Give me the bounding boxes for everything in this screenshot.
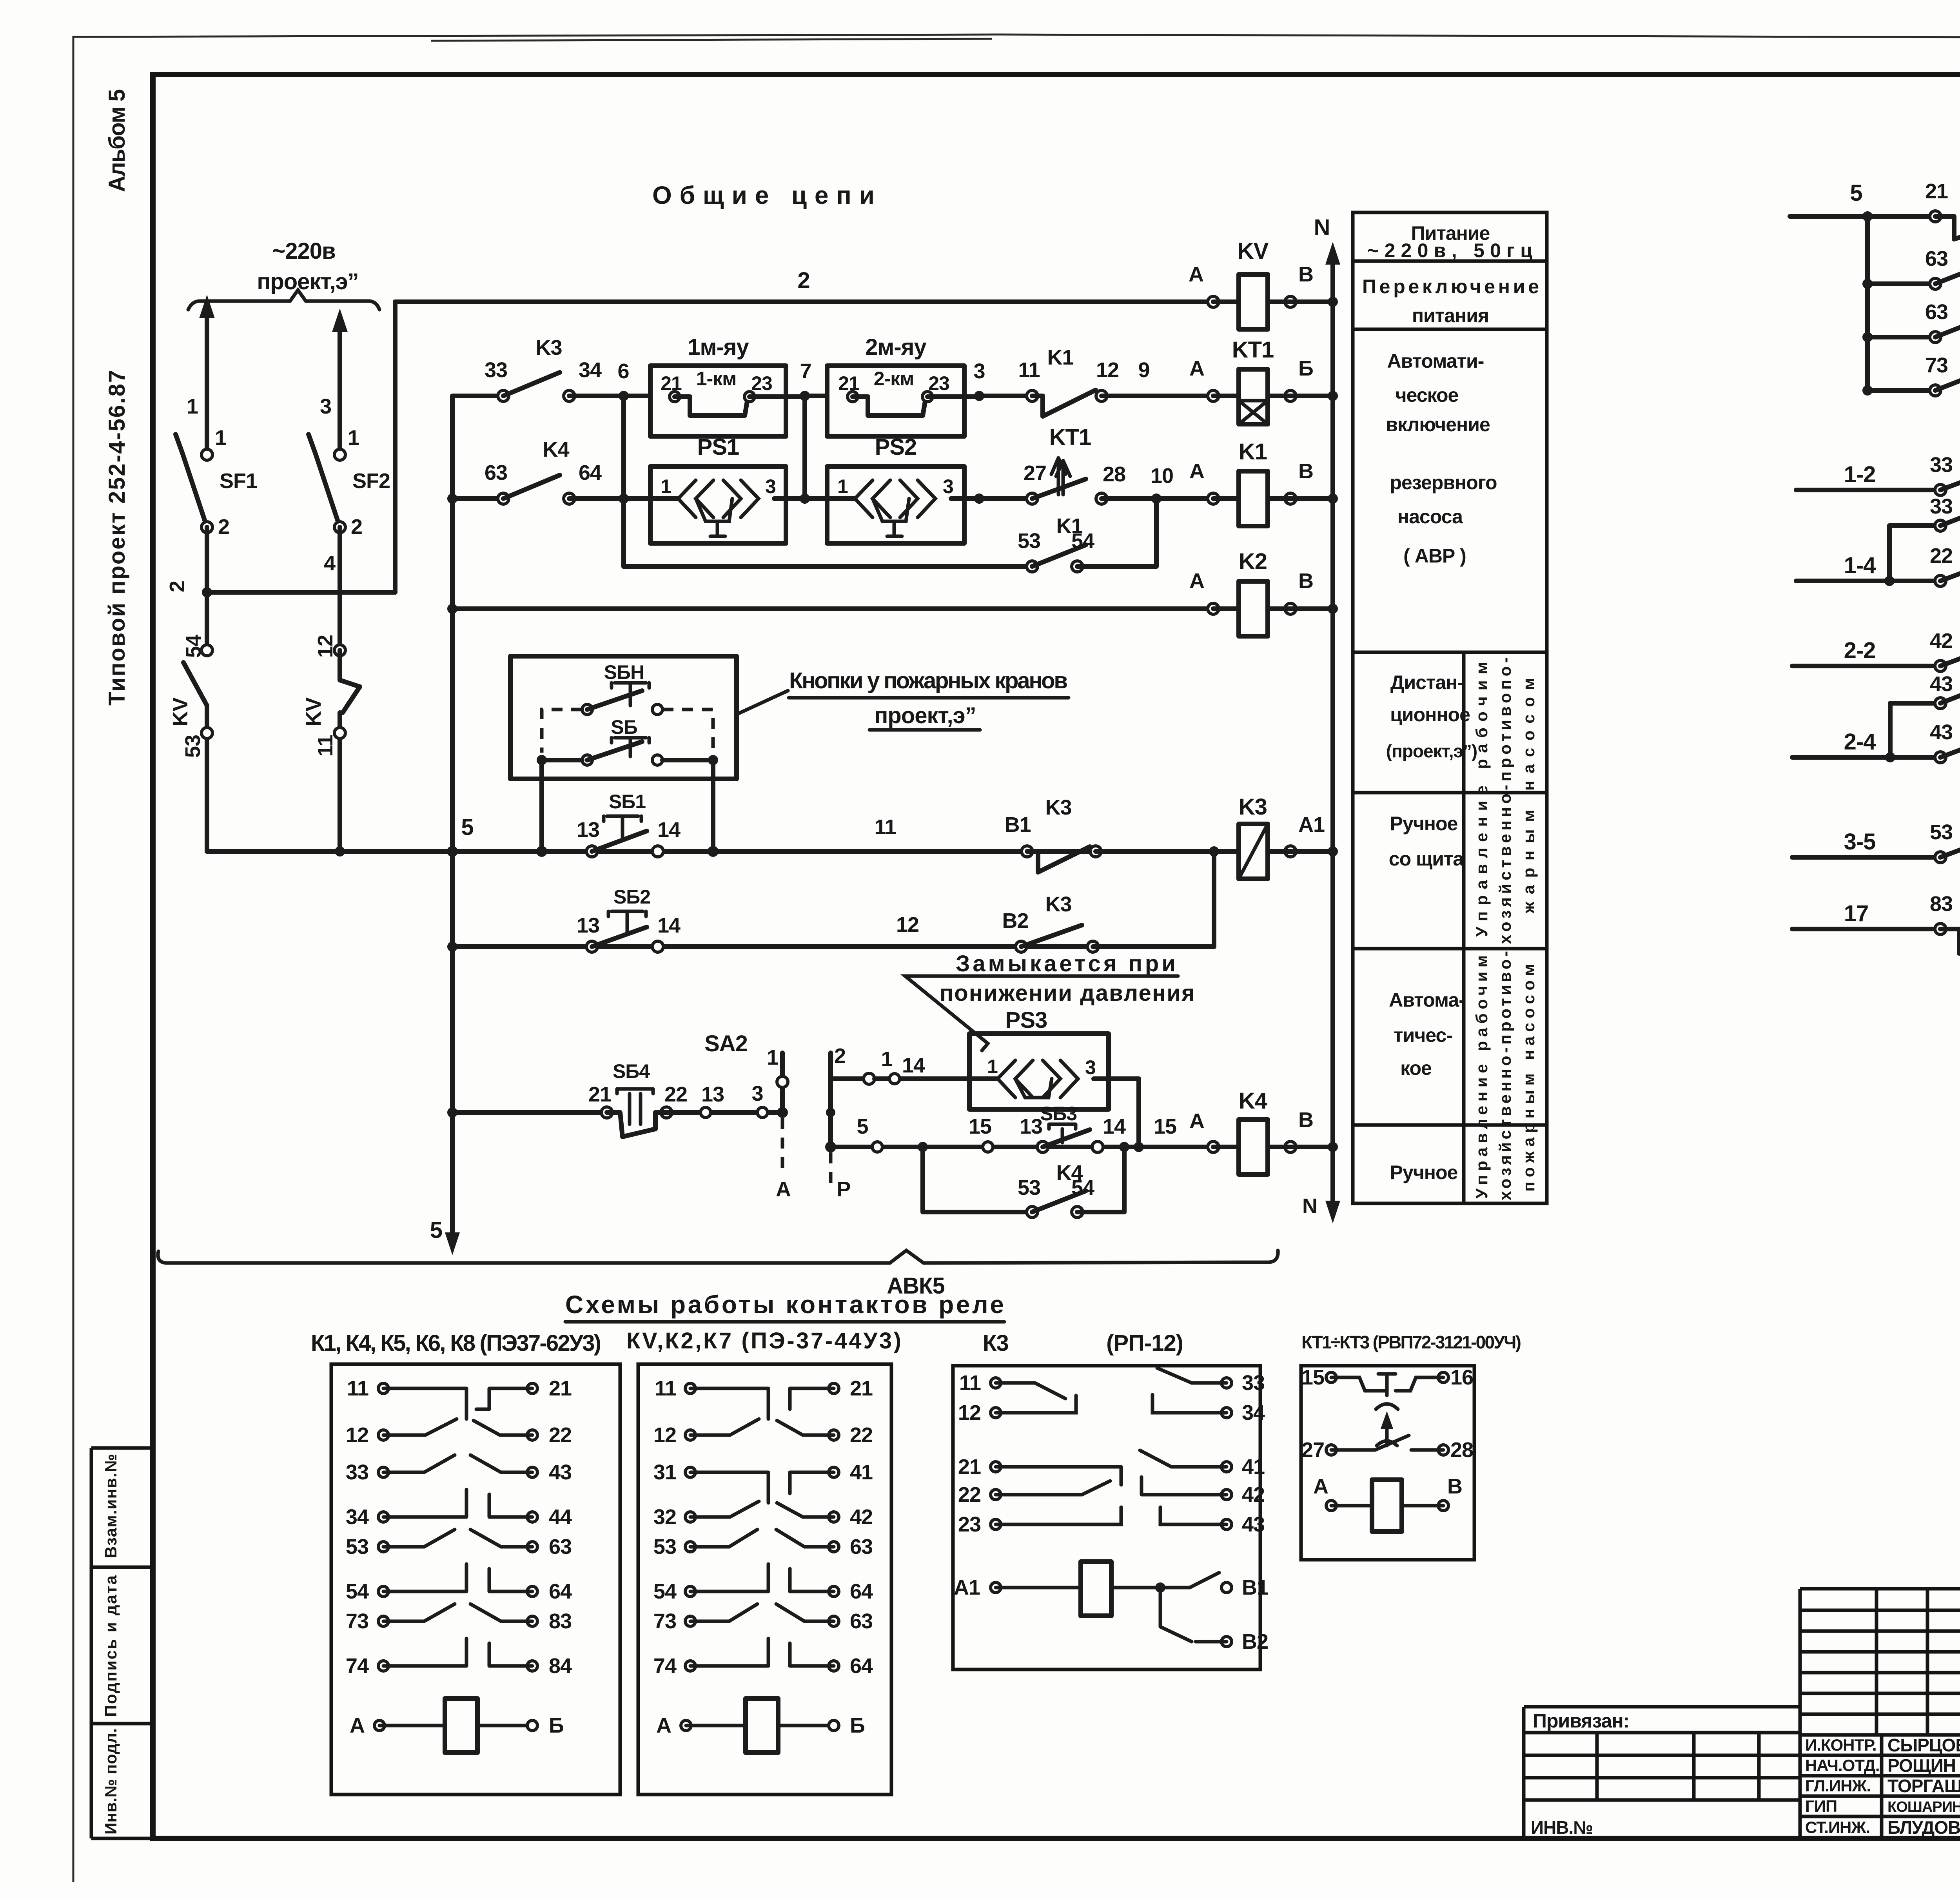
svg-text:КОШАРИНОВА: КОШАРИНОВА — [1887, 1799, 1960, 1815]
wire SF2 down — [338, 527, 342, 851]
svg-text:1: 1 — [348, 426, 359, 450]
svg-text:64: 64 — [850, 1654, 873, 1678]
svg-text:53: 53 — [1018, 529, 1040, 553]
svg-text:13: 13 — [1020, 1115, 1042, 1138]
svg-text:11: 11 — [347, 1377, 368, 1400]
svg-text:1: 1 — [187, 395, 198, 418]
svg-text:28: 28 — [1103, 463, 1125, 486]
svg-text:15: 15 — [1301, 1366, 1324, 1389]
contact KV on SF2 branch — [334, 645, 345, 656]
svg-text:11: 11 — [314, 735, 337, 757]
svg-text:Б: Б — [850, 1714, 865, 1737]
group3 contact K4 43-44 — [1890, 701, 1940, 706]
svg-text:насоса: насоса — [1397, 506, 1463, 528]
svg-text:1: 1 — [837, 475, 848, 497]
row SB2 — [448, 942, 457, 951]
box3 coil and output contacts — [996, 1586, 1160, 1590]
relay diagram box1 — [331, 1364, 620, 1795]
svg-text:7: 7 — [800, 359, 811, 383]
svg-text:КТ1÷КТ3 (РВП72-3121-00УЧ): КТ1÷КТ3 (РВП72-3121-00УЧ) — [1301, 1332, 1521, 1352]
svg-text:54: 54 — [1071, 1176, 1094, 1199]
pressure contact PS3 — [969, 1076, 1109, 1081]
svg-text:63: 63 — [549, 1535, 572, 1559]
svg-text:(РП-12): (РП-12) — [1106, 1330, 1183, 1356]
titleblock main frame — [1800, 1589, 1960, 1838]
svg-text:Альбом 5: Альбом 5 — [104, 89, 130, 192]
sheet outer edge left — [73, 36, 74, 1882]
svg-text:3-5: 3-5 — [1844, 829, 1876, 855]
svg-text:2-км: 2-км — [874, 368, 914, 390]
svg-text:73: 73 — [1925, 354, 1948, 377]
svg-text:15: 15 — [969, 1115, 991, 1138]
svg-text:Ручное: Ручное — [1390, 1161, 1458, 1183]
svg-text:А: А — [1313, 1475, 1328, 1498]
svg-text:53: 53 — [653, 1535, 676, 1559]
svg-text:6: 6 — [617, 359, 629, 383]
pressure contact PS2 — [827, 496, 964, 501]
svg-text:5: 5 — [430, 1218, 442, 1243]
svg-text:В: В — [1298, 263, 1313, 286]
svg-text:KV: KV — [169, 697, 192, 726]
svg-text:Переключение: Переключение — [1362, 276, 1539, 298]
svg-text:( АВР ): ( АВР ) — [1403, 545, 1466, 567]
svg-text:А: А — [350, 1714, 365, 1737]
svg-text:PS3: PS3 — [1005, 1007, 1047, 1033]
box3 contact 33-34 — [1152, 1368, 1227, 1413]
svg-text:К1, К4, К5, К6, К8 (ПЭ37-62У3): К1, К4, К5, К6, К8 (ПЭ37-62У3) — [311, 1330, 601, 1356]
bypass contact K1 53-54 — [624, 564, 1027, 569]
svg-text:53: 53 — [1018, 1176, 1040, 1199]
svg-text:11: 11 — [655, 1377, 676, 1400]
svg-text:включение: включение — [1386, 414, 1490, 435]
svg-text:KV: KV — [1238, 238, 1269, 264]
pressure contact PS1 — [650, 496, 786, 501]
svg-text:KV: KV — [302, 697, 325, 726]
svg-text:64: 64 — [850, 1580, 873, 1603]
svg-text:14: 14 — [902, 1054, 925, 1077]
svg-text:74: 74 — [346, 1654, 369, 1678]
svg-text:42: 42 — [850, 1505, 873, 1529]
svg-text:тичес-: тичес- — [1394, 1024, 1452, 1046]
sheet edge double line top — [431, 39, 992, 41]
svg-text:KT1: KT1 — [1049, 425, 1091, 450]
svg-text:1-2: 1-2 — [1844, 462, 1876, 487]
svg-text:15: 15 — [1154, 1115, 1176, 1138]
bus 5 — [207, 849, 1214, 854]
signature rows — [1800, 1735, 1960, 1838]
svg-text:В: В — [1447, 1475, 1462, 1498]
box1 contact pair 53-63/54-64 — [383, 1530, 532, 1547]
relay diagram box2 — [638, 1364, 891, 1795]
wire tie between feeders — [207, 590, 395, 595]
svg-text:1м-яу: 1м-яу — [688, 334, 749, 360]
svg-text:27: 27 — [1301, 1438, 1324, 1462]
wire 1-14 row — [875, 1076, 969, 1081]
wire between PS boxes — [786, 496, 827, 501]
svg-text:Ручное: Ручное — [1390, 813, 1458, 835]
svg-text:Р: Р — [837, 1178, 850, 1201]
svg-text:1-4: 1-4 — [1844, 553, 1876, 578]
dashed link left — [542, 709, 582, 753]
function table frame — [1353, 212, 1547, 1203]
box2 contact pair 53-63/54-64 — [690, 1530, 834, 1547]
svg-text:1: 1 — [661, 475, 671, 497]
svg-text:SБ: SБ — [611, 716, 637, 738]
wire PS3 to row K4 — [1109, 1079, 1139, 1147]
svg-text:54: 54 — [346, 1580, 369, 1603]
svg-text:34: 34 — [1242, 1401, 1265, 1424]
svg-text:84: 84 — [549, 1654, 572, 1678]
svg-text:К3: К3 — [983, 1330, 1009, 1356]
svg-text:14: 14 — [1103, 1115, 1126, 1138]
svg-text:17: 17 — [1844, 901, 1869, 926]
svg-text:SF1: SF1 — [220, 469, 257, 493]
svg-text:21: 21 — [588, 1083, 611, 1106]
svg-text:43: 43 — [1930, 672, 1953, 696]
svg-text:34: 34 — [579, 358, 602, 382]
wire to contact K1 — [979, 394, 1027, 398]
svg-text:N: N — [1302, 1194, 1317, 1218]
svg-text:3: 3 — [973, 359, 985, 383]
svg-text:А: А — [1189, 1109, 1204, 1133]
svg-text:22: 22 — [958, 1483, 981, 1506]
svg-text:3: 3 — [943, 475, 953, 497]
box3 contact 11-12 — [996, 1383, 1076, 1413]
svg-text:(проект,э”): (проект,э”) — [1386, 741, 1477, 761]
svg-text:SБ3: SБ3 — [1040, 1103, 1077, 1125]
svg-text:Привязан:: Привязан: — [1533, 1710, 1629, 1732]
svg-text:43: 43 — [1242, 1513, 1265, 1536]
svg-text:10: 10 — [1151, 464, 1173, 488]
svg-text:БЛУДОВА: БЛУДОВА — [1887, 1817, 1960, 1838]
rail 5 arrow — [450, 1112, 455, 1247]
breaker SF2 — [334, 449, 345, 460]
svg-text:А: А — [776, 1178, 791, 1201]
svg-text:кое: кое — [1400, 1057, 1432, 1079]
svg-text:хозяйственно-противо-: хозяйственно-противо- — [1496, 951, 1514, 1200]
svg-text:Взам.инв.№: Взам.инв.№ — [102, 1454, 120, 1558]
svg-text:В2: В2 — [1242, 1630, 1268, 1653]
svg-text:SБ4: SБ4 — [613, 1060, 650, 1082]
brace under 220в label — [188, 290, 379, 310]
contact K2 63-64 — [1863, 332, 1872, 342]
svg-text:Автома-: Автома- — [1389, 989, 1465, 1011]
rail for rows — [450, 396, 455, 1112]
svg-text:27: 27 — [1024, 461, 1046, 485]
svg-text:32: 32 — [653, 1505, 676, 1529]
svg-text:Кнопки у пожарных кранов: Кнопки у пожарных кранов — [789, 668, 1067, 693]
row 2 wire — [452, 394, 499, 398]
svg-text:43: 43 — [1930, 720, 1953, 744]
svg-text:2-4: 2-4 — [1844, 729, 1876, 755]
svg-text:2: 2 — [834, 1044, 846, 1068]
svg-text:Дистан-: Дистан- — [1390, 671, 1463, 693]
svg-text:K3: K3 — [1239, 794, 1267, 820]
svg-text:42: 42 — [1930, 629, 1953, 653]
svg-text:Управление рабочим: Управление рабочим — [1472, 956, 1491, 1199]
svg-text:54: 54 — [1071, 529, 1094, 553]
bus 2 — [395, 299, 1213, 304]
svg-text:9: 9 — [1138, 358, 1149, 382]
svg-text:K4: K4 — [1239, 1088, 1267, 1114]
svg-text:SБ2: SБ2 — [613, 886, 650, 908]
wire PS2 to KT1 contact — [964, 496, 1027, 501]
svg-text:63: 63 — [850, 1609, 873, 1633]
svg-text:12: 12 — [346, 1423, 368, 1447]
svg-text:2: 2 — [165, 581, 189, 592]
svg-text:12: 12 — [896, 913, 919, 936]
svg-text:НАЧ.ОТД.: НАЧ.ОТД. — [1805, 1756, 1880, 1775]
dashed link right — [662, 709, 713, 753]
svg-text:11: 11 — [1018, 358, 1040, 382]
svg-text:73: 73 — [346, 1609, 368, 1633]
svg-text:1: 1 — [215, 426, 226, 450]
group2 contact K4 33-34 — [1889, 523, 1940, 528]
svg-text:Типовой проект 252-4-56.87: Типовой проект 252-4-56.87 — [104, 370, 130, 706]
row K2 wire — [448, 604, 457, 613]
svg-text:ГИП: ГИП — [1805, 1797, 1837, 1815]
svg-text:Б: Б — [549, 1714, 564, 1737]
svg-text:63: 63 — [850, 1535, 873, 1559]
svg-text:64: 64 — [549, 1580, 572, 1603]
svg-text:ТОРГАШОВ: ТОРГАШОВ — [1887, 1776, 1960, 1796]
svg-text:33: 33 — [485, 358, 507, 382]
margin stamp table — [91, 1448, 153, 1838]
svg-text:21: 21 — [850, 1377, 873, 1400]
svg-text:41: 41 — [850, 1461, 873, 1484]
svg-text:3: 3 — [320, 395, 331, 418]
svg-text:СЫРЦОВА: СЫРЦОВА — [1887, 1735, 1960, 1755]
svg-text:5: 5 — [857, 1115, 868, 1138]
revision grid — [1800, 1589, 1960, 1838]
svg-text:K3: K3 — [535, 336, 562, 359]
bypass contact K4 53-54 — [923, 1147, 1027, 1212]
wire box to bus — [542, 760, 713, 851]
svg-text:PS2: PS2 — [875, 434, 917, 460]
svg-text:2-2: 2-2 — [1844, 638, 1876, 663]
svg-text:12: 12 — [1096, 358, 1119, 382]
svg-text:жарным насосом: жарным насосом — [1519, 678, 1538, 914]
svg-text:KT1: KT1 — [1232, 337, 1274, 363]
svg-text:А1: А1 — [954, 1576, 980, 1599]
node B — [1285, 296, 1296, 307]
svg-text:11: 11 — [959, 1371, 981, 1395]
svg-text:64: 64 — [579, 461, 602, 484]
row SB4 — [448, 1108, 457, 1117]
svg-text:SF2: SF2 — [352, 469, 390, 493]
wire 7 to box2 — [805, 394, 827, 398]
svg-text:N: N — [1314, 215, 1330, 240]
svg-text:63: 63 — [1925, 300, 1948, 324]
svg-text:83: 83 — [549, 1609, 572, 1633]
svg-text:пожарным насосом: пожарным насосом — [1519, 964, 1538, 1192]
svg-text:СТ.ИНЖ.: СТ.ИНЖ. — [1805, 1818, 1870, 1836]
wire rail from bus 2 — [393, 302, 397, 592]
box3 contact 21-22-23 — [996, 1467, 1121, 1524]
contact 1-КМ 21-23 — [670, 392, 680, 402]
привязан box — [1524, 1707, 1800, 1838]
svg-text:РОЩИН: РОЩИН — [1887, 1755, 1956, 1776]
svg-text:проект,э”: проект,э” — [874, 703, 976, 728]
svg-text:14: 14 — [657, 914, 681, 937]
svg-text:В1: В1 — [1242, 1576, 1268, 1599]
svg-text:А: А — [1189, 357, 1204, 380]
wire SF2 incoming arrow — [338, 318, 342, 450]
svg-text:со щита: со щита — [1389, 848, 1465, 870]
box2 contact pair 11-21/12-22 — [690, 1388, 834, 1419]
svg-text:А: А — [1189, 569, 1204, 593]
svg-text:53: 53 — [346, 1535, 368, 1559]
svg-text:34: 34 — [346, 1505, 369, 1529]
svg-text:21: 21 — [958, 1455, 981, 1479]
svg-text:3: 3 — [765, 475, 776, 497]
svg-text:16: 16 — [1450, 1366, 1473, 1389]
svg-text:53: 53 — [1930, 820, 1953, 844]
svg-text:А1: А1 — [1298, 813, 1325, 836]
svg-text:1-км: 1-км — [696, 368, 736, 390]
svg-text:В1: В1 — [1004, 813, 1031, 836]
svg-text:44: 44 — [549, 1505, 572, 1529]
svg-text:Управление рабочим: Управление рабочим — [1472, 662, 1491, 937]
wire KV to N — [1268, 299, 1333, 304]
svg-text:K3: K3 — [1045, 893, 1071, 916]
wire node6 to row3 — [621, 396, 626, 566]
svg-text:ческое: ческое — [1396, 384, 1459, 406]
contact 2-КМ 21-23 — [848, 392, 858, 402]
svg-text:Б: Б — [1298, 357, 1313, 380]
svg-text:В2: В2 — [1002, 909, 1028, 933]
wire SF1 incoming arrow — [205, 304, 209, 450]
row K4 wire — [831, 1145, 1213, 1149]
svg-text:SA2: SA2 — [704, 1031, 748, 1056]
relay diagram box3 — [953, 1366, 1260, 1669]
note leader — [905, 976, 1178, 1051]
svg-text:А: А — [656, 1714, 671, 1737]
contact KV on SF1 branch — [201, 645, 212, 656]
breaker SF1 — [201, 449, 212, 460]
svg-text:В: В — [1298, 459, 1313, 483]
svg-text:5: 5 — [1850, 180, 1862, 206]
svg-text:ИНВ.№: ИНВ.№ — [1531, 1817, 1593, 1838]
svg-text:А: А — [1189, 263, 1203, 286]
svg-text:73: 73 — [653, 1609, 676, 1633]
svg-text:12: 12 — [653, 1423, 676, 1447]
svg-text:Замыкается при: Замыкается при — [956, 951, 1175, 976]
svg-text:12: 12 — [958, 1401, 981, 1424]
svg-text:А: А — [1189, 459, 1204, 483]
svg-text:13: 13 — [701, 1083, 724, 1106]
svg-text:В: В — [1298, 1108, 1313, 1132]
svg-text:53: 53 — [181, 735, 205, 758]
svg-text:83: 83 — [1930, 892, 1953, 916]
svg-text:33: 33 — [1242, 1371, 1265, 1395]
svg-text:КV,К2,К7 (ПЭ-37-44У3): КV,К2,К7 (ПЭ-37-44У3) — [626, 1328, 901, 1354]
svg-text:22: 22 — [549, 1423, 572, 1447]
svg-text:63: 63 — [1925, 247, 1948, 270]
box1 contact pair 11-21/12-22 — [383, 1388, 532, 1419]
svg-text:1: 1 — [987, 1056, 998, 1078]
svg-text:5: 5 — [461, 815, 473, 840]
svg-text:K1: K1 — [1047, 346, 1073, 369]
box1 contact pair 33-43/34-44 — [383, 1455, 532, 1472]
svg-text:31: 31 — [653, 1461, 676, 1484]
svg-text:2м-яу: 2м-яу — [865, 334, 926, 360]
svg-text:74: 74 — [653, 1654, 677, 1678]
svg-text:4: 4 — [324, 552, 336, 575]
svg-text:Общие цепи: Общие цепи — [652, 181, 874, 209]
svg-text:K3: K3 — [1045, 796, 1071, 819]
svg-text:2: 2 — [218, 515, 229, 539]
box2 contact pair 73-63/74-64 — [690, 1604, 834, 1621]
svg-text:хозяйственно-противопо-: хозяйственно-противопо- — [1496, 658, 1514, 944]
svg-text:11: 11 — [874, 815, 896, 839]
svg-text:1: 1 — [767, 1046, 778, 1069]
svg-text:2: 2 — [351, 515, 362, 539]
svg-text:13: 13 — [577, 818, 599, 842]
sheet outer edge top — [73, 34, 1960, 39]
svg-text:22: 22 — [850, 1423, 873, 1447]
svg-text:33: 33 — [1930, 453, 1953, 477]
svg-text:23: 23 — [958, 1513, 981, 1536]
svg-text:28: 28 — [1450, 1438, 1473, 1462]
svg-text:41: 41 — [1242, 1455, 1265, 1479]
svg-text:И.КОНТР.: И.КОНТР. — [1805, 1736, 1877, 1754]
svg-text:SБН: SБН — [604, 661, 644, 683]
row 3 wire — [448, 494, 457, 503]
svg-text:3: 3 — [751, 1082, 763, 1105]
svg-text:Инв.№ подл.: Инв.№ подл. — [102, 1729, 120, 1834]
svg-text:Подпись и дата: Подпись и дата — [102, 1575, 120, 1717]
svg-text:42: 42 — [1242, 1483, 1265, 1506]
callout leader — [737, 691, 788, 714]
svg-text:3: 3 — [1085, 1056, 1096, 1078]
svg-text:K2: K2 — [1239, 549, 1267, 574]
svg-text:33: 33 — [1930, 495, 1953, 518]
svg-text:22: 22 — [664, 1083, 687, 1106]
svg-text:63: 63 — [485, 461, 507, 484]
svg-text:14: 14 — [657, 818, 681, 842]
relay diagram box4 — [1301, 1366, 1474, 1560]
svg-text:22: 22 — [1930, 544, 1953, 568]
svg-text:~220в: ~220в — [272, 238, 335, 264]
svg-text:понижении давления: понижении давления — [940, 980, 1194, 1006]
svg-text:54: 54 — [653, 1580, 677, 1603]
svg-text:SБ1: SБ1 — [609, 791, 646, 813]
contact K2 73-74 — [1863, 386, 1872, 395]
svg-text:1: 1 — [881, 1047, 892, 1071]
svg-text:Автомати-: Автомати- — [1387, 350, 1484, 372]
svg-text:ГЛ.ИНЖ.: ГЛ.ИНЖ. — [1805, 1776, 1871, 1795]
svg-text:21: 21 — [549, 1377, 572, 1400]
svg-text:K1: K1 — [1239, 439, 1267, 465]
svg-text:21: 21 — [1925, 180, 1948, 203]
group1 rail — [1865, 216, 1870, 390]
box4 arrow — [1385, 1418, 1389, 1446]
svg-text:PS1: PS1 — [697, 434, 739, 460]
svg-text:питания: питания — [1412, 305, 1489, 327]
svg-text:12: 12 — [314, 635, 337, 658]
box1 contact pair 73-83/74-84 — [383, 1604, 532, 1621]
wire SF1 down — [205, 527, 209, 851]
box2 contact pair 31-41/32-42 — [690, 1472, 834, 1503]
svg-text:13: 13 — [577, 914, 599, 937]
svg-text:проект,э”: проект,э” — [257, 269, 358, 294]
svg-text:43: 43 — [549, 1461, 572, 1484]
svg-text:ционное: ционное — [1390, 704, 1470, 726]
box3 contact 41-42-43 — [1140, 1450, 1227, 1524]
buttons box — [510, 656, 737, 779]
svg-text:В: В — [1298, 569, 1313, 593]
